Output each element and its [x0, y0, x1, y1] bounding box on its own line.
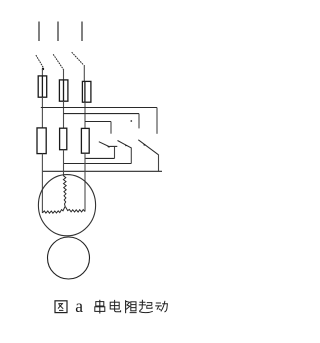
- wire KM2 top terminal drop: [138, 114, 140, 129]
- glyph 阻: [126, 300, 137, 313]
- fuse FU2: [59, 80, 68, 101]
- contact KM3 blade arrowhead: [143, 144, 146, 146]
- resistor R1: [37, 128, 46, 154]
- wire fuse2 to resistor R2 (node A2): [63, 101, 65, 128]
- wire resistor R2 bottom to motor (node B2): [63, 150, 65, 176]
- resistor R2: [60, 128, 67, 150]
- knife switch QS pole 3 blade: [72, 52, 84, 65]
- stator winding phase 3 zigzag: [65, 206, 85, 212]
- supply line L3: [81, 22, 83, 42]
- switch pole 1 pivot dot: [42, 68, 44, 70]
- supply line L2: [57, 22, 59, 42]
- glyph 电: [110, 300, 120, 312]
- wire resistor R1 bottom to motor (node B1): [41, 154, 43, 213]
- contact KM3 blade: [138, 140, 158, 155]
- wire tap node A1 to contact KM3 top: [41, 107, 157, 109]
- motor stator circle M: [38, 175, 95, 236]
- wire tap node A2 to contact KM2 top: [64, 113, 140, 115]
- wire tap node A3 to contact KM1 top: [85, 121, 111, 123]
- wire KM1 top terminal drop: [110, 122, 112, 134]
- glyph 图: [55, 301, 67, 313]
- contact KM1 bottom lead: [110, 145, 118, 147]
- wire switch1 to fuse1: [41, 69, 43, 76]
- resistor R3: [81, 128, 89, 153]
- wire switch2 to fuse2: [63, 69, 65, 80]
- wire KM3 return to node B1: [42, 170, 162, 172]
- contact KM1 blade: [99, 142, 110, 147]
- stator winding phase 1 zigzag: [42, 206, 65, 213]
- glyph 动: [155, 301, 167, 312]
- wire fuse3 to resistor R3 (node A3): [84, 102, 86, 128]
- glyph 串: [95, 300, 105, 314]
- motor rotor circle: [48, 237, 90, 279]
- contact KM2 blade arrowhead: [125, 144, 128, 146]
- knife switch QS pole 2 blade: [53, 54, 63, 69]
- stray dot: [130, 120, 132, 122]
- wire KM1 return to node B3: [85, 157, 115, 159]
- stator winding phase 2 zigzag: [63, 176, 66, 207]
- contact KM3 bottom lead: [158, 155, 160, 172]
- wire switch3 to fuse3: [83, 65, 85, 82]
- contact KM1 blade arrowhead: [107, 146, 110, 148]
- caption: 图 a 串电阻起动: [55, 296, 167, 316]
- glyph 起: [139, 300, 153, 313]
- knife switch QS pole 1 blade: [36, 55, 43, 67]
- wire fuse1 to resistor R1 (node A1): [41, 97, 43, 128]
- contact KM2 bottom lead: [130, 148, 132, 164]
- wire resistor R3 bottom to motor (node B3): [84, 153, 86, 211]
- supply line L1: [38, 22, 40, 42]
- contact KM2 blade: [118, 141, 132, 149]
- wire KM2 return to node B2: [64, 163, 132, 165]
- svg-text:a: a: [75, 296, 83, 316]
- wire KM3 top terminal drop: [156, 108, 158, 134]
- fuse FU1: [38, 76, 47, 97]
- fuse FU3: [82, 81, 91, 102]
